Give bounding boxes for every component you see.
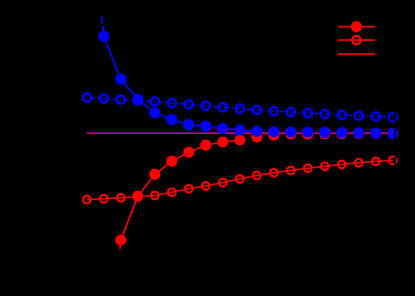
right axis spine (black, drawn over markers) [395,0,397,291]
horizontal asymptote line (blue dotted) [87,131,395,133]
red open series line [87,160,393,199]
blue filled entry segment below top spine [103,26,104,37]
blue open series markers [83,93,91,101]
red filled series markers [115,234,126,245]
red filled series entry stub (clipped at bottom spine) [119,240,122,249]
blue filled series line (descending arm) [104,36,257,131]
red filled series line (steep rising arm) [121,140,240,240]
red open series markers [83,196,91,204]
legend entry 1: red line with filled circle [338,26,375,28]
legend entry 3: red plain line [338,53,375,55]
horizontal asymptote line (red, near-solid dashes) [87,132,395,134]
legend entry 2: red line with open circle [338,39,375,41]
blue filled series markers [98,31,109,42]
blue open series line (dash-dot) [87,98,393,118]
blue filled entry segment above top spine [101,17,104,24]
